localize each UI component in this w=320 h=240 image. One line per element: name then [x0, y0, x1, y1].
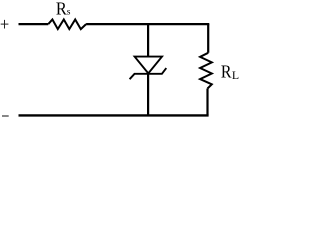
wire top from Rs to top-right corner — [86, 23, 209, 25]
zener diode D1 triangle (anode) — [135, 57, 162, 74]
zener diode D1 cathode bar with bent ends — [130, 68, 167, 79]
node + (positive input terminal) — [1, 20, 9, 29]
wire bottom from bottom-right corner to - terminal — [19, 114, 209, 116]
resistor RL — [200, 53, 212, 89]
svg-text:R: R — [221, 61, 232, 81]
wire right-bottom from RL to bottom-right corner — [206, 89, 208, 116]
svg-text:L: L — [232, 68, 239, 82]
svg-text:s: s — [67, 8, 71, 18]
wire right-top corner down to RL — [207, 24, 209, 53]
wire from zener cathode down to bottom wire — [147, 74, 149, 116]
wire top-left from + terminal to Rs — [19, 23, 49, 25]
node - (negative input terminal) — [2, 115, 9, 117]
resistor Rs — [48, 20, 86, 30]
wire from top wire down to zener anode — [147, 24, 149, 56]
svg-text:R: R — [56, 0, 67, 19]
